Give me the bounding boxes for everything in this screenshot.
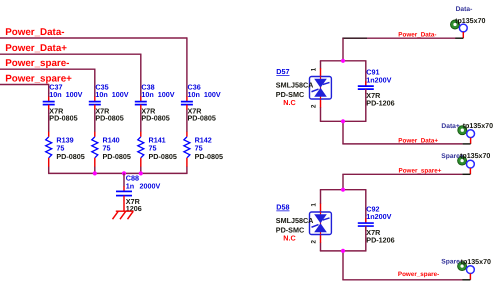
svg-text:SMLJ58CA: SMLJ58CA [276, 216, 314, 225]
transient diode D58 [310, 204, 332, 243]
svg-text:PD-0805: PD-0805 [141, 114, 169, 123]
junction at R140/rail [93, 171, 97, 175]
junction D58 bottom [341, 249, 345, 253]
wire C35 column bottom [94, 167, 96, 174]
wire C38 column mid [140, 110, 142, 133]
capacitor C38 [135, 83, 175, 123]
capacitor C92 [358, 190, 395, 251]
wire D58 left top [320, 190, 322, 204]
svg-text:PD-1206: PD-1206 [366, 99, 394, 108]
wire C38 column top [140, 54, 142, 97]
svg-text:1n: 1n [126, 181, 134, 190]
svg-text:10n 100V: 10n 100V [141, 90, 174, 99]
wire Power_Data- right black segment [342, 37, 367, 39]
wire C36 column top [186, 37, 188, 96]
svg-text:Power_spare+: Power_spare+ [399, 167, 442, 174]
svg-text:PD-0805: PD-0805 [95, 114, 123, 123]
svg-text:PD-0805: PD-0805 [49, 114, 77, 123]
svg-text:2: 2 [311, 104, 318, 108]
svg-text:tp135x70: tp135x70 [463, 122, 493, 130]
svg-text:N.C: N.C [283, 98, 295, 107]
transient diode D57 [310, 68, 332, 107]
svg-text:PD-0805: PD-0805 [195, 152, 223, 161]
wire C88 drop [123, 173, 125, 186]
svg-text:1n200V: 1n200V [366, 75, 391, 84]
junction D57 top [341, 59, 345, 63]
wire Power_spare- right [342, 279, 462, 281]
wire C37 column mid [48, 110, 50, 133]
wire bus D58 upper [342, 174, 344, 189]
svg-text:10n 100V: 10n 100V [95, 90, 128, 99]
svg-text:Power_Data+: Power_Data+ [5, 43, 67, 54]
junction D58 top [341, 188, 345, 192]
svg-text:PD-1206: PD-1206 [366, 235, 394, 244]
svg-text:1: 1 [311, 203, 318, 207]
svg-text:2: 2 [311, 240, 318, 244]
wire D58 left bottom [320, 243, 322, 251]
wire Power_spare+ right [342, 173, 462, 175]
svg-text:PD-0805: PD-0805 [149, 152, 177, 161]
svg-text:Power_Data-: Power_Data- [398, 32, 436, 39]
wire D57 left bottom [320, 107, 322, 121]
svg-text:N.C: N.C [283, 233, 295, 242]
wire bus D57 lower [342, 121, 344, 144]
wire Power_Data+ right [342, 143, 462, 145]
wire C36 column bottom [186, 167, 188, 174]
svg-text:tp135x70: tp135x70 [455, 17, 485, 25]
resistor R141 [138, 132, 177, 167]
capacitor C35 [89, 83, 129, 123]
wire bus D58 lower [342, 251, 344, 280]
wire Power_spare+ [0, 84, 49, 86]
svg-text:PD-0805: PD-0805 [188, 114, 216, 123]
testpoint Data+ [458, 126, 475, 144]
svg-text:SMLJ58CA: SMLJ58CA [276, 80, 314, 89]
ground [113, 200, 134, 219]
svg-text:10n 100V: 10n 100V [188, 90, 221, 99]
svg-text:Power_spare-: Power_spare- [398, 271, 439, 278]
svg-text:Power_Data-: Power_Data- [5, 27, 64, 38]
wire C37 column bottom [48, 167, 50, 174]
wire C37 column top [48, 84, 50, 97]
svg-text:1n200V: 1n200V [366, 212, 391, 221]
wire D57 left top [320, 61, 322, 69]
svg-text:Power_spare-: Power_spare- [5, 58, 69, 69]
wire bus D57 upper [342, 38, 344, 61]
wire C38 column bottom [140, 167, 142, 174]
wire Power_Data+ [0, 53, 141, 55]
svg-text:1: 1 [311, 67, 318, 71]
wire D58 loop bottom [320, 250, 367, 252]
svg-text:tp135x70: tp135x70 [460, 152, 490, 160]
resistor R140 [92, 132, 131, 167]
testpoint Spare+ [458, 156, 475, 174]
wire Power_Data- [0, 37, 187, 39]
junction D57 bottom [341, 119, 345, 123]
svg-text:PD-0805: PD-0805 [103, 152, 131, 161]
wire bottom rail [48, 172, 188, 174]
wire D57 loop top [320, 60, 367, 62]
wire C35 column mid [94, 110, 96, 133]
junction at R141/rail [139, 171, 143, 175]
svg-text:Spare-: Spare- [441, 259, 462, 266]
svg-text:2000V: 2000V [140, 181, 161, 190]
wire C35 column top [94, 69, 96, 97]
wire Power_spare- [0, 68, 95, 70]
junction at C88 tap [122, 171, 126, 175]
svg-text:10n 100V: 10n 100V [49, 90, 82, 99]
svg-text:D57: D57 [276, 67, 289, 76]
wire Power_Data- right [367, 37, 456, 39]
wire D58 loop top [320, 189, 367, 191]
svg-text:PD-0805: PD-0805 [56, 152, 84, 161]
capacitor C37 [43, 83, 83, 123]
capacitor C88 [116, 173, 160, 213]
wire D57 loop bottom [320, 120, 367, 122]
capacitor C36 [181, 83, 221, 123]
svg-text:Power_Data+: Power_Data+ [398, 137, 438, 144]
svg-text:Data+: Data+ [441, 123, 459, 130]
resistor R142 [184, 132, 223, 167]
testpoint Spare- [458, 262, 475, 280]
resistor R139 [46, 132, 85, 167]
capacitor C91 [358, 61, 395, 122]
testpoint Data- [451, 20, 468, 38]
svg-text:D58: D58 [276, 203, 289, 212]
svg-text:Data-: Data- [456, 6, 473, 13]
svg-text:tp135x70: tp135x70 [461, 258, 491, 266]
wire C36 column mid [186, 110, 188, 133]
